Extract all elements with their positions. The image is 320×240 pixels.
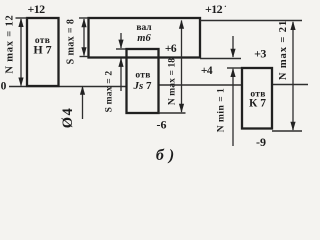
- +12 extension tick left: [16, 17, 28, 19]
- +12 extension line right: [200, 20, 302, 22]
- diameter leader Ø4: [60, 86, 85, 129]
- +3 extension line: [227, 67, 242, 69]
- label +4: [201, 65, 213, 77]
- +4 tick under S max 8 arrow: [80, 56, 89, 58]
- -9 extension line: [272, 130, 302, 132]
- svg-text:S max = 8: S max = 8: [65, 19, 76, 65]
- svg-text:S max = 2: S max = 2: [105, 71, 115, 113]
- label +3: [254, 47, 266, 61]
- dimension N max = 21: [278, 20, 296, 131]
- tolerance zone hole H7: [27, 18, 59, 86]
- label вал m6: [136, 23, 152, 44]
- svg-text:Ø4: Ø4: [60, 107, 76, 129]
- dimension N max = 18: [168, 20, 184, 113]
- -6 extension line: [159, 112, 186, 114]
- svg-text:N max = 21: N max = 21: [278, 20, 289, 80]
- svg-text:Н 7: Н 7: [33, 43, 51, 57]
- +12 extension tick middle: [79, 17, 89, 19]
- dimension N max = 12: [4, 14, 23, 86]
- svg-text:Js 7: Js 7: [132, 80, 152, 92]
- svg-text:·: ·: [224, 2, 227, 11]
- svg-text:-9: -9: [256, 135, 266, 149]
- svg-text:0: 0: [1, 81, 7, 93]
- svg-text:-6: -6: [157, 118, 167, 132]
- svg-text:вал: вал: [136, 23, 152, 33]
- +4 extension line: [200, 58, 241, 60]
- zero line (nominal size line, 0 level): [9, 85, 308, 87]
- svg-text:+3: +3: [254, 47, 266, 61]
- svg-text:отв: отв: [135, 71, 150, 81]
- +6 extension line: [116, 48, 127, 50]
- svg-text:+6: +6: [165, 43, 177, 55]
- label +12 (left): [27, 2, 45, 16]
- tolerance zone hole Js7: [127, 49, 159, 113]
- label 0: [1, 81, 7, 93]
- label +12* (right): [205, 2, 227, 16]
- label отв K7: [249, 90, 266, 110]
- label -6: [157, 118, 167, 132]
- tolerance zone shaft m6: [89, 18, 201, 58]
- dimension S max = 2: [105, 33, 124, 112]
- figure sublabel б): [156, 147, 179, 164]
- svg-text:N min = 1: N min = 1: [217, 88, 227, 133]
- svg-text:+4: +4: [201, 65, 213, 77]
- svg-text:б): б): [156, 147, 179, 164]
- tolerance zone hole K7: [242, 68, 272, 129]
- dimension N min = 1: [217, 36, 236, 146]
- label отв H7: [33, 36, 51, 57]
- svg-text:N max = 12: N max = 12: [4, 14, 15, 73]
- label -9: [256, 135, 266, 149]
- dimension S max = 8: [65, 18, 86, 64]
- svg-text:N max = 18: N max = 18: [168, 58, 178, 105]
- svg-text:+12: +12: [27, 2, 45, 16]
- svg-text:m6: m6: [137, 33, 151, 44]
- label отв Js7: [132, 71, 152, 93]
- svg-text:+12: +12: [205, 2, 223, 16]
- svg-text:К 7: К 7: [249, 98, 266, 110]
- label +6: [165, 43, 177, 55]
